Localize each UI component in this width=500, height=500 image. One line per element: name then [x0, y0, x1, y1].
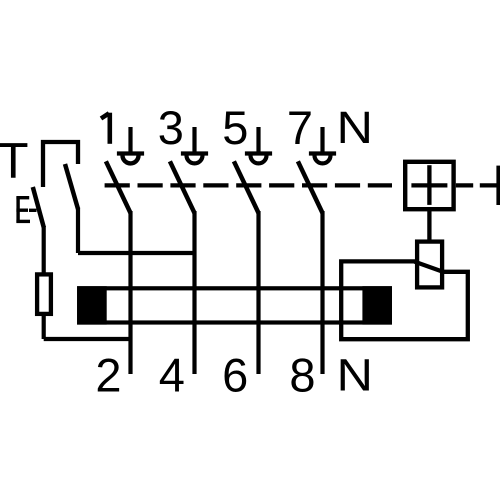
svg-text:N: N	[337, 102, 374, 153]
svg-text:4: 4	[159, 349, 185, 402]
svg-text:5: 5	[222, 101, 248, 154]
svg-text:7: 7	[287, 101, 313, 154]
svg-text:2: 2	[95, 349, 121, 402]
svg-text:T: T	[0, 133, 29, 189]
svg-text:8: 8	[289, 349, 315, 402]
svg-text:3: 3	[158, 101, 184, 154]
svg-text:N: N	[337, 349, 374, 400]
svg-text:6: 6	[222, 349, 248, 402]
